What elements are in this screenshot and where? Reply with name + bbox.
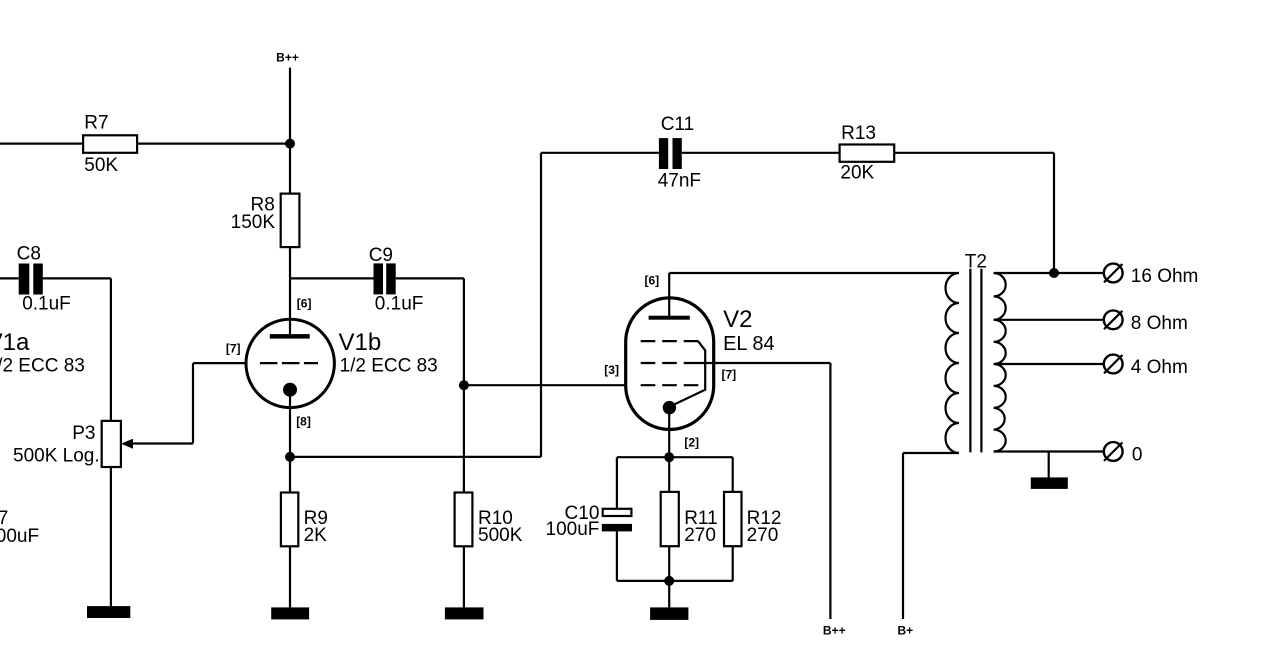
wire screen to B++	[698, 362, 830, 364]
svg-text:1/2 ECC 83: 1/2 ECC 83	[0, 355, 85, 376]
svg-text:0.1uF: 0.1uF	[22, 293, 71, 314]
wire V1b cathode down	[289, 397, 291, 457]
wire R7 to B++ node	[137, 143, 290, 145]
wire primary bottom to B+	[903, 452, 959, 454]
resistor R8	[281, 194, 300, 248]
svg-text:500K: 500K	[478, 525, 523, 546]
wire R10 to ground	[463, 546, 465, 607]
resistor R11	[661, 492, 679, 546]
wire down to 16 ohm tap	[1053, 153, 1055, 273]
wire R11 lower lead	[668, 546, 670, 581]
wire to C11	[541, 152, 659, 154]
node cathode net top	[664, 452, 674, 462]
arrowhead P3 wiper	[121, 439, 133, 449]
svg-text:270: 270	[684, 525, 716, 546]
terminal 8 ohm	[1104, 310, 1123, 329]
terminal 0	[1104, 442, 1123, 461]
svg-text:[8]: [8]	[296, 414, 311, 428]
capacitor C10	[603, 509, 632, 516]
svg-text:8 Ohm: 8 Ohm	[1131, 313, 1188, 334]
anode plate V2	[649, 316, 690, 320]
svg-text:[7]: [7]	[722, 368, 737, 382]
wire P3 to ground	[110, 467, 112, 606]
svg-text:[6]: [6]	[645, 274, 660, 288]
svg-text:2K: 2K	[304, 525, 328, 546]
wire C10 branch upper	[616, 457, 618, 509]
svg-text:20K: 20K	[840, 162, 874, 183]
wire C8 to P3	[43, 277, 111, 279]
wire grid to left	[193, 362, 245, 364]
svg-text:C11: C11	[661, 114, 694, 135]
svg-text:100uF: 100uF	[546, 519, 600, 540]
ground R9	[271, 607, 309, 619]
svg-text:0.1uF: 0.1uF	[375, 293, 424, 314]
svg-text:[2]: [2]	[684, 436, 699, 450]
wire C10 lower	[616, 531, 618, 581]
svg-text:B++: B++	[823, 624, 846, 638]
wire R11 upper lead	[668, 457, 670, 492]
tube V2	[626, 298, 714, 430]
svg-text:47nF: 47nF	[658, 171, 701, 192]
wire plate node to C9	[290, 277, 374, 279]
svg-text:[6]: [6]	[297, 297, 312, 311]
wire R13 right	[894, 152, 1054, 154]
wire node to R8	[289, 144, 291, 194]
wire V2 plate up	[668, 273, 670, 316]
wire V2 grid	[464, 384, 624, 386]
wire cathode to R9	[289, 457, 291, 493]
node 16 ohm tap	[1049, 268, 1059, 278]
wire C9 down to grid node	[463, 278, 465, 385]
capacitor C11	[659, 138, 668, 169]
svg-text:V1a: V1a	[0, 329, 30, 356]
svg-text:T2: T2	[965, 252, 987, 273]
svg-text:[3]: [3]	[604, 363, 619, 377]
ground secondary	[1031, 477, 1068, 489]
svg-text:V2: V2	[723, 306, 752, 333]
svg-text:C8: C8	[17, 244, 41, 265]
capacitor C8	[0, 277, 19, 279]
wire 8 ohm tap	[994, 319, 1104, 321]
wire 0 tap	[994, 450, 1104, 452]
ground R10	[445, 607, 484, 619]
svg-text:EL 84: EL 84	[723, 333, 775, 355]
tube V1b	[246, 319, 334, 407]
wire feedback up	[540, 153, 542, 457]
svg-text:1/2 ECC 83: 1/2 ECC 83	[340, 355, 438, 376]
wire cathode bus top	[617, 456, 733, 458]
resistor R9	[281, 493, 298, 547]
svg-text:R13: R13	[841, 123, 876, 144]
node cathode net bottom	[664, 576, 674, 586]
svg-text:0: 0	[1132, 445, 1143, 466]
wire 0 tap to ground	[1048, 452, 1050, 478]
wire R12 upper lead	[732, 457, 734, 492]
T2 primary winding	[946, 273, 959, 453]
svg-text:50K: 50K	[84, 155, 118, 176]
wire wiper arrow	[132, 442, 194, 444]
grid V1b (dashed)	[260, 362, 318, 364]
cathode dot V2	[663, 401, 676, 414]
svg-text:V1b: V1b	[339, 329, 382, 356]
wire R9 to ground	[289, 546, 291, 607]
resistor R12	[724, 492, 742, 546]
svg-text:B++: B++	[276, 51, 299, 65]
node B++ rail	[285, 139, 295, 149]
terminal 4 ohm	[1104, 355, 1123, 374]
T2 core	[969, 269, 971, 453]
svg-text:4 Ohm: 4 Ohm	[1131, 357, 1188, 378]
svg-text:C9: C9	[369, 245, 393, 266]
suppressor grid V2 (dashed)	[641, 340, 699, 342]
wire R8 to V1b plate	[289, 247, 291, 334]
wire B++ down	[289, 68, 291, 144]
wire C9 right	[396, 277, 464, 279]
wire cathode bus bottom	[617, 580, 733, 582]
wire feedback bus	[290, 456, 541, 458]
svg-text:500K Log.: 500K Log.	[13, 446, 100, 467]
wire V2 cathode down	[668, 407, 670, 457]
svg-text:R7: R7	[84, 113, 108, 134]
svg-text:100uF: 100uF	[0, 526, 39, 547]
wire down to P3 wiper	[192, 363, 194, 443]
ground P3	[87, 606, 130, 618]
resistor R10	[455, 493, 473, 547]
terminal 16 ohm	[1104, 264, 1123, 283]
svg-text:[7]: [7]	[226, 341, 241, 355]
resistor R13	[840, 145, 895, 162]
ground V2 cathode	[650, 607, 688, 620]
wire 4 ohm tap	[994, 363, 1104, 365]
svg-text:P3: P3	[72, 423, 95, 444]
wire node to R10	[463, 385, 465, 492]
wire C11 to R13	[682, 152, 840, 154]
suppressor to cathode link	[672, 341, 705, 405]
control grid V2 (dashed)	[641, 384, 699, 386]
node V2 grid	[459, 380, 469, 390]
T2 secondary winding	[994, 273, 1006, 452]
svg-text:B+: B+	[898, 624, 914, 638]
potentiometer P3	[102, 421, 121, 467]
wire R7 row left	[0, 143, 83, 145]
anode plate V1b	[270, 334, 310, 339]
wire to ground	[668, 581, 670, 608]
svg-text:150K: 150K	[231, 212, 276, 233]
cathode dot V1b	[283, 383, 297, 397]
wire plate to transformer	[669, 272, 959, 274]
svg-text:16 Ohm: 16 Ohm	[1131, 266, 1199, 287]
node cathode junction	[285, 452, 295, 462]
wire 16 ohm tap	[994, 272, 1104, 274]
svg-text:270: 270	[747, 525, 779, 546]
capacitor C9	[374, 263, 384, 294]
wire R12 lower lead	[732, 546, 734, 581]
screen grid V2 (dashed)	[641, 362, 699, 364]
resistor R7	[83, 135, 137, 153]
